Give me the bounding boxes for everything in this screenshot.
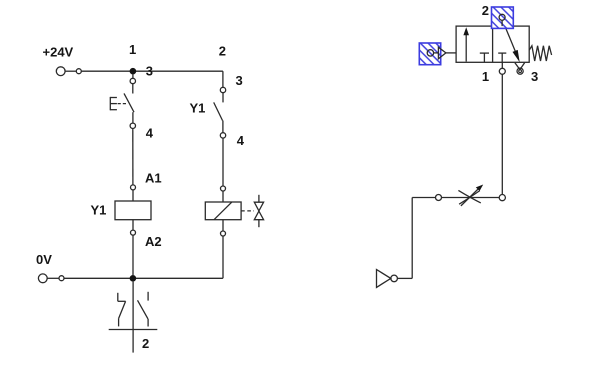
coil terminal A2: [131, 230, 136, 235]
node junction +24V rail: [130, 68, 137, 75]
solenoid terminal top: [221, 186, 226, 191]
solenoid pilot marker (blue hatched): [419, 43, 440, 65]
coil terminal A1: [131, 185, 136, 190]
port 2 connection: [499, 14, 505, 26]
label 2 (port): [482, 3, 489, 18]
valve left box flow arrow: [463, 27, 469, 61]
label Y1 (coil): [91, 203, 107, 218]
wire branch 2 from rail: [222, 71, 224, 87]
svg-text:3: 3: [146, 64, 153, 79]
label 3 (port): [531, 69, 538, 84]
terminal +24V: [56, 67, 81, 76]
port 3 exhaust: [515, 63, 525, 74]
svg-text:A1: A1: [145, 171, 162, 186]
contact overview NO contact: [138, 292, 149, 327]
contact overview NC contact: [118, 293, 126, 327]
label 2 (branch 2): [219, 43, 226, 58]
wire +24V rail: [65, 70, 223, 72]
svg-text:2: 2: [142, 336, 149, 351]
terminal 0V: [38, 274, 64, 283]
pin label 3: [236, 73, 243, 88]
port 1 connection: [499, 62, 505, 74]
valve solenoid Y1: [205, 202, 241, 220]
wire solenoid to bottom terminal: [222, 220, 224, 231]
node corner: [499, 195, 505, 201]
return spring: [529, 46, 551, 61]
pin label 4: [237, 133, 245, 148]
pin label 3: [146, 64, 153, 79]
label 1 (port): [482, 69, 489, 84]
3/2-way valve body: [456, 26, 529, 62]
dashed mechanical link: [241, 210, 254, 212]
wire to air supply: [398, 198, 436, 279]
pushbutton S1 (NO contact): [124, 84, 134, 124]
throttle valve (adjustable): [458, 185, 483, 206]
air supply connection: [391, 275, 398, 282]
label Y1 (contact): [190, 100, 206, 115]
svg-text:3: 3: [236, 73, 243, 88]
compressed air source: [377, 270, 391, 288]
wire corner to throttle: [442, 197, 500, 199]
+24V label: [43, 45, 74, 60]
svg-text:0V: 0V: [36, 252, 52, 267]
svg-text:A2: A2: [145, 234, 162, 249]
relay contact Y1 (NO contact): [214, 93, 223, 133]
wire coil to A2: [132, 220, 134, 231]
valve link hourglass symbol: [254, 195, 263, 227]
svg-text:4: 4: [237, 133, 245, 148]
wire A1 to coil: [132, 190, 134, 201]
pushbutton S1 pin 4: [130, 123, 135, 128]
svg-text:Y1: Y1: [190, 100, 206, 115]
valve blocked port T (left box): [480, 53, 489, 62]
svg-text:1: 1: [129, 42, 136, 57]
relay contact Y1 pin 3: [220, 87, 225, 92]
relay coil Y1: [115, 201, 151, 220]
pushbutton S1 pin 3: [130, 78, 135, 83]
wire contact to solenoid: [222, 138, 224, 186]
manual actuator E: [110, 97, 127, 110]
svg-text:4: 4: [146, 126, 154, 141]
wire port 1 down: [501, 74, 503, 194]
0V label: [36, 252, 52, 267]
pin label 4: [146, 126, 154, 141]
solenoid terminal bottom: [221, 231, 226, 236]
wire terminal to solenoid body: [222, 191, 224, 202]
svg-text:2: 2: [219, 43, 226, 58]
label A2: [145, 234, 162, 249]
valve blocked port T (right box): [498, 53, 506, 62]
svg-text:1: 1: [482, 69, 489, 84]
wire junction to pushbutton pin 3: [132, 75, 134, 79]
wire pushbutton to coil A1: [132, 129, 134, 186]
label 1 (branch 1): [129, 42, 136, 57]
relay contact Y1 pin 4: [220, 133, 225, 138]
port 2 marker (blue hatched): [492, 7, 514, 28]
svg-text:Y1: Y1: [91, 203, 107, 218]
svg-text:+24V: +24V: [43, 45, 74, 60]
node on pneumatic line: [436, 195, 442, 201]
wire A2 to 0V rail: [132, 235, 134, 275]
solenoid pilot symbol: [427, 47, 456, 59]
svg-text:2: 2: [482, 3, 489, 18]
contact overview bar: [109, 282, 158, 353]
svg-text:3: 3: [531, 69, 538, 84]
valve flow path 2 to 3 arrow: [503, 21, 520, 62]
wire 0V rail: [47, 277, 223, 279]
wire solenoid to 0V rail: [222, 236, 224, 278]
contact overview label 2: [142, 336, 149, 351]
node junction 0V rail: [130, 275, 137, 282]
label A1: [145, 171, 162, 186]
